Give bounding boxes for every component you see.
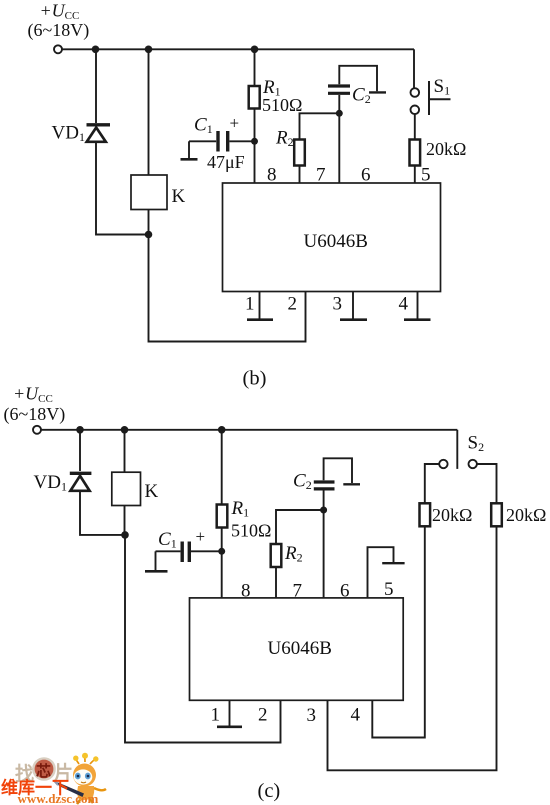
wire top rail (c) (41, 429, 457, 431)
node dot C1-R1 (b) (251, 138, 258, 145)
pin1 ground (c) (217, 700, 242, 727)
wire C2 bottom to pin6 (c) (323, 491, 325, 598)
svg-text:8: 8 (241, 581, 251, 602)
wire VD1 drop (c) (79, 430, 81, 471)
svg-text:+: + (230, 114, 240, 133)
node dot below K (b) (145, 231, 153, 239)
relay K (c) (112, 472, 141, 505)
watermark mascot antenna balls (73, 756, 78, 761)
ground C1 (b) (181, 141, 198, 159)
node dot rail-K (b) (145, 46, 153, 54)
svg-text:VD1: VD1 (52, 123, 85, 145)
svg-text:5: 5 (384, 579, 394, 600)
wire S2 right contact to 20k-right (c) (477, 464, 497, 503)
wire R1 bottom to pin8 (b) (254, 109, 256, 184)
node dot rail-R1 (c) (218, 426, 226, 434)
wire 20k-right to pin3 (c) (328, 526, 497, 770)
svg-text:20kΩ: 20kΩ (506, 505, 546, 525)
svg-text:www.dzsc.com: www.dzsc.com (18, 791, 99, 805)
svg-text:7: 7 (293, 581, 303, 602)
svg-text:S2: S2 (468, 433, 485, 455)
IC U6046B (c) (190, 598, 404, 700)
touch electrode C2 (c) (324, 458, 360, 484)
switch S1 actuator (429, 81, 451, 115)
svg-text:6: 6 (361, 165, 371, 186)
pin4 ground (b) (404, 292, 431, 320)
svg-text:20kΩ: 20kΩ (426, 139, 466, 159)
svg-text:47μF: 47μF (207, 152, 245, 172)
svg-text:K: K (145, 481, 159, 502)
diode VD1 (c) (70, 473, 92, 491)
node dot rail-VD1 (b) (92, 46, 100, 54)
wire R2 bottom to pin7 (c) (275, 567, 277, 598)
svg-text:4: 4 (399, 294, 409, 315)
ground C1 (c) (145, 551, 168, 571)
wire VD1 anode drop (b) (95, 49, 97, 123)
svg-text:6: 6 (340, 581, 350, 602)
svg-text:C2: C2 (293, 471, 312, 493)
resistor R2 (c) (271, 544, 282, 567)
wire 20k to pin5 (b) (414, 166, 416, 184)
svg-text:(6~18V): (6~18V) (28, 20, 90, 41)
wire VD1 bottom to K node (c) (80, 491, 125, 535)
switch S2 contacts (439, 460, 477, 468)
svg-text:(6~18V): (6~18V) (4, 404, 66, 425)
touch electrode C2 (b) (339, 66, 386, 93)
svg-text:R2: R2 (284, 543, 303, 565)
resistor 20k (b) (410, 140, 421, 166)
wire 20k-left to pin4 (c) (372, 526, 425, 737)
wire S2 left contact to 20k-left (c) (425, 464, 439, 503)
svg-text:R2: R2 (275, 128, 294, 150)
svg-text:S1: S1 (434, 76, 451, 98)
resistor R1 (b) (249, 86, 260, 109)
watermark pen (57, 782, 84, 797)
svg-text:510Ω: 510Ω (231, 521, 271, 541)
switch S1 contacts (411, 88, 420, 114)
terminal +Ucc (c) (33, 426, 41, 434)
node dot C2-R2 (b) (336, 110, 343, 117)
node dot C2-R2 (c) (320, 507, 327, 514)
pin1 ground (b) (247, 292, 273, 320)
diode VD1 (b) (87, 125, 111, 142)
touch electrode pin5 (c) (368, 547, 405, 598)
watermark mascot body (77, 786, 94, 801)
wire rail corner to S1 (b) (413, 49, 415, 88)
svg-text:3: 3 (307, 705, 317, 726)
svg-text:1: 1 (245, 294, 255, 315)
svg-text:(c): (c) (258, 780, 281, 802)
capacitor C2 (b) (328, 86, 350, 93)
svg-text:VD1: VD1 (34, 472, 67, 494)
svg-text:3: 3 (333, 294, 343, 315)
wire R2 top to C2 node (c) (276, 510, 324, 544)
node dot rail-R1 (b) (251, 46, 259, 54)
wire node to pin2 (b) (149, 235, 306, 342)
wire R1 top (b) (254, 49, 256, 86)
svg-text:U6046B: U6046B (304, 231, 368, 252)
terminal +Ucc (b) (54, 45, 62, 53)
pin3 ground (b) (340, 292, 367, 320)
wire R2 top to C2 node (b) (300, 113, 340, 139)
resistor 20k right (c) (491, 503, 502, 526)
svg-text:2: 2 (288, 294, 298, 315)
resistor 20k left (c) (420, 503, 431, 526)
svg-text:+UCC: +UCC (40, 1, 80, 23)
svg-text:R1: R1 (231, 498, 250, 520)
watermark mascot antennae (76, 758, 95, 764)
resistor R2 (b) (294, 140, 305, 166)
wire S1 to 20k (b) (414, 114, 416, 139)
capacitor C2 (c) (314, 482, 335, 489)
wire R1 top (c) (221, 430, 223, 505)
svg-text:510Ω: 510Ω (262, 95, 302, 115)
svg-text:芯: 芯 (36, 762, 51, 780)
relay K (b) (131, 175, 167, 210)
svg-text:7: 7 (316, 165, 326, 186)
node dot rail-VD1 (c) (76, 426, 84, 434)
svg-text:5: 5 (421, 165, 431, 186)
svg-text:+: + (196, 527, 206, 546)
capacitor C1 (c) (156, 542, 222, 563)
resistor R1 (c) (217, 505, 228, 528)
svg-text:C2: C2 (352, 85, 371, 107)
wire K top (b) (148, 49, 150, 175)
svg-text:+UCC: +UCC (13, 384, 53, 406)
node dot rail-K (c) (121, 426, 129, 434)
svg-text:C1: C1 (194, 115, 213, 137)
wire S2 pole (c) (456, 430, 458, 469)
svg-text:2: 2 (258, 705, 268, 726)
svg-text:(b): (b) (243, 368, 267, 390)
watermark mascot head (73, 764, 96, 787)
svg-text:U6046B: U6046B (268, 638, 332, 659)
svg-text:K: K (172, 186, 186, 207)
wire K bottom (b) (148, 210, 150, 235)
wire R2 bottom to pin7 (b) (299, 166, 301, 184)
wire R1 bottom to pin8 (c) (221, 528, 223, 598)
svg-text:20kΩ: 20kΩ (432, 505, 472, 525)
node dot C1-R1 (c) (218, 548, 225, 555)
wire top rail (b) (62, 48, 414, 50)
svg-text:C1: C1 (158, 529, 177, 551)
svg-text:8: 8 (267, 165, 277, 186)
wire node to pin2 (c) (125, 535, 281, 743)
node dot below K (c) (121, 531, 129, 539)
watermark magnifier with xin (33, 758, 54, 779)
svg-text:4: 4 (351, 705, 361, 726)
wire C2 bottom to pin6 (b) (338, 95, 340, 183)
wire K bottom (c) (124, 506, 126, 535)
capacitor C1 (b) (189, 131, 255, 152)
svg-text:1: 1 (211, 705, 221, 726)
IC U6046B (b) (223, 183, 441, 292)
wire VD1 bottom to K-bottom node (b) (96, 142, 149, 235)
wire K top (c) (124, 430, 126, 472)
